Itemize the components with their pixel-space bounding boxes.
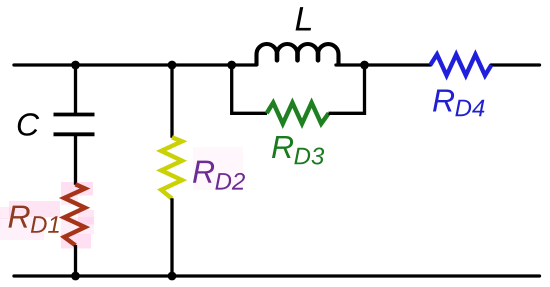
- wire parallel-box right riser: [329, 65, 365, 113]
- node dot L-box left: [227, 61, 236, 70]
- faint highlight behind RD2 label: [193, 147, 243, 190]
- label RD1: [8, 206, 58, 233]
- node dot bottom C branch: [71, 272, 80, 281]
- label RD4: [433, 89, 484, 116]
- wire branch C/RD1 top: [74, 65, 77, 115]
- inductor L dip stems: [277, 54, 318, 61]
- label RD3: [272, 136, 324, 165]
- resistor RD1 (dark red, vertical): [64, 184, 85, 245]
- node dot top RD2 branch: [168, 61, 177, 70]
- label C: [18, 113, 40, 136]
- resistor RD4 (blue, horizontal): [430, 55, 491, 76]
- label L: [296, 7, 311, 30]
- node dot L-box right: [360, 61, 369, 70]
- capacitor C plates: [54, 115, 95, 135]
- wire RD2 to bottom rail: [170, 198, 173, 276]
- node dot bottom RD2 branch: [168, 272, 177, 281]
- resistor RD2 (yellow, vertical): [161, 137, 182, 198]
- wire bottom rail: [14, 274, 540, 277]
- node dot top C branch: [71, 61, 80, 70]
- wire parallel-box left drop: [232, 65, 267, 113]
- wire top rail (right of RD4): [491, 63, 540, 66]
- wire branch RD2 top: [170, 65, 173, 138]
- inductor L: [257, 44, 339, 66]
- resistor RD3 (green, horizontal): [267, 103, 329, 124]
- wire C to RD1: [74, 134, 77, 185]
- label RD2: [193, 161, 245, 190]
- highlight glow around resistor RD1: [0, 182, 94, 249]
- wire top rail: [14, 63, 257, 66]
- wire RD1 to bottom rail: [74, 245, 77, 276]
- wire top rail (between L and RD4): [336, 63, 431, 66]
